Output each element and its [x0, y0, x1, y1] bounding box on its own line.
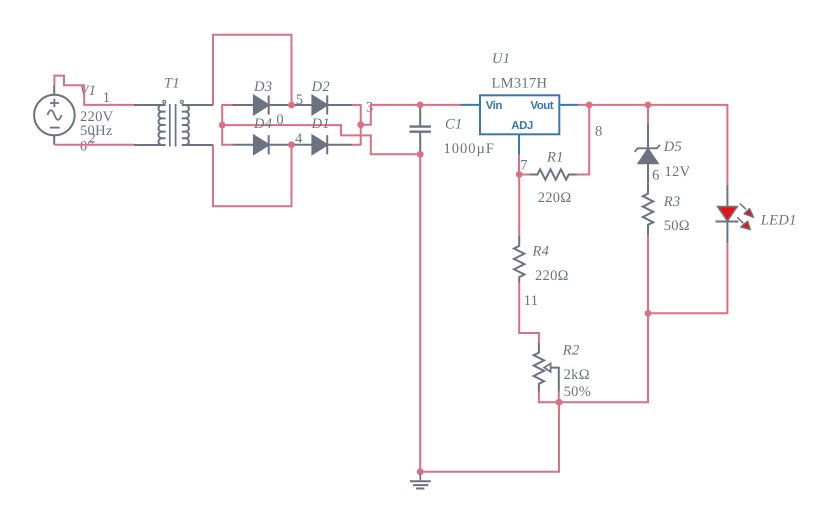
C1 top dot — [417, 102, 424, 109]
svg-text:D4: D4 — [253, 116, 272, 132]
svg-text:7: 7 — [520, 158, 528, 174]
svg-text:50Hz: 50Hz — [80, 123, 113, 139]
svg-text:6: 6 — [652, 167, 660, 183]
svg-text:LM317H: LM317H — [492, 75, 548, 91]
resistor R4 — [514, 236, 524, 282]
R2 bottom dot — [556, 399, 563, 406]
svg-text:1: 1 — [103, 90, 111, 106]
node 8 dot — [586, 102, 593, 109]
svg-text:5: 5 — [296, 92, 304, 108]
wire left bracket D3/D4 anodes — [222, 105, 232, 145]
LED1 arrows — [737, 204, 753, 230]
op-amp regulator U1 LM317H — [480, 95, 559, 134]
svg-text:Vin: Vin — [486, 100, 503, 112]
potentiometer R2 — [534, 342, 559, 392]
svg-text:0: 0 — [276, 112, 284, 128]
svg-text:12V: 12V — [665, 164, 691, 180]
svg-text:C1: C1 — [445, 117, 463, 133]
svg-text:D5: D5 — [663, 139, 682, 155]
wire R3 bottom to node — [647, 236, 649, 313]
C1 bottom dot — [417, 151, 424, 158]
svg-text:T1: T1 — [164, 76, 180, 92]
zener diode D5 — [635, 123, 660, 184]
wire R4 bottom to R2 top — [519, 282, 539, 342]
svg-text:4: 4 — [295, 131, 303, 147]
wire junction to LED bottom — [648, 243, 727, 313]
ground dot — [417, 468, 424, 475]
svg-text:R2: R2 — [562, 343, 580, 359]
wire D2/D1 cathodes to node 3 — [352, 105, 361, 145]
wire node 7 down to R4 — [518, 175, 520, 236]
wire node 8 vertical to R1 right — [577, 105, 590, 175]
wire T1 secondary bottom loop to node 4 — [213, 145, 292, 206]
node 7 dot — [516, 171, 523, 178]
wire R2 bottom node to R3/LED node — [559, 313, 648, 402]
svg-text:50Ω: 50Ω — [664, 218, 690, 234]
svg-text:D3: D3 — [253, 79, 272, 95]
svg-text:R4: R4 — [532, 243, 550, 259]
R3/LED junction dot — [645, 310, 652, 317]
node 3 dot — [357, 121, 364, 128]
wire node 0 center to C1 bottom — [222, 125, 420, 154]
svg-text:220Ω: 220Ω — [535, 268, 569, 284]
svg-text:D2: D2 — [311, 79, 330, 95]
R2 wiper arrowhead — [544, 363, 550, 371]
svg-text:Vout: Vout — [530, 100, 553, 112]
wire node 7 to R1 left — [519, 174, 529, 176]
svg-text:R3: R3 — [663, 194, 681, 210]
svg-text:8: 8 — [595, 123, 603, 139]
svg-text:2kΩ: 2kΩ — [564, 367, 590, 383]
svg-text:R1: R1 — [546, 150, 564, 166]
ground — [410, 474, 431, 489]
resistor R1 — [530, 169, 577, 179]
wire Vout to LED top — [578, 105, 727, 185]
diode D4 — [233, 135, 292, 154]
wire V1 top to T1 primary top — [54, 76, 134, 105]
svg-text:LED1: LED1 — [760, 212, 797, 228]
wire C1 bottom to ground — [419, 154, 421, 471]
node 4 dot — [288, 141, 295, 148]
resistor R3 — [643, 184, 653, 236]
pin stub Vout — [559, 104, 578, 106]
D5 top dot — [645, 102, 652, 109]
svg-text:D1: D1 — [311, 116, 330, 132]
transformer T1 — [134, 100, 213, 146]
AC source V1 — [34, 85, 75, 145]
svg-text:ADJ: ADJ — [511, 120, 533, 132]
wire ADJ to node 7 — [518, 155, 520, 175]
wire ground rail to R2 bottom — [420, 402, 559, 472]
LED1 — [716, 185, 739, 244]
svg-text:11: 11 — [524, 293, 539, 309]
diode D3 — [233, 95, 292, 114]
svg-text:220Ω: 220Ω — [538, 190, 572, 206]
wire V1 bottom to T1 primary bottom — [55, 144, 135, 146]
pin stub ADJ — [518, 134, 520, 154]
node 0 junction dot — [219, 122, 226, 129]
diode D2 — [292, 95, 353, 114]
pin stub Vin — [461, 104, 481, 106]
pin joint D5-R3 — [647, 182, 649, 185]
diode D1 — [292, 135, 353, 154]
svg-text:3: 3 — [366, 100, 374, 116]
wire T1 secondary top loop to node 5 — [213, 35, 292, 105]
wire R2 bottom to node dot — [539, 392, 559, 402]
wire D5 top stub — [647, 105, 649, 123]
wire node 3 jog to C1 top and Vin — [361, 105, 461, 125]
capacitor C1 — [410, 105, 431, 154]
svg-text:1000µF: 1000µF — [444, 141, 495, 157]
svg-text:U1: U1 — [492, 51, 510, 67]
node 5 dot — [288, 102, 295, 109]
svg-text:50%: 50% — [564, 384, 591, 400]
